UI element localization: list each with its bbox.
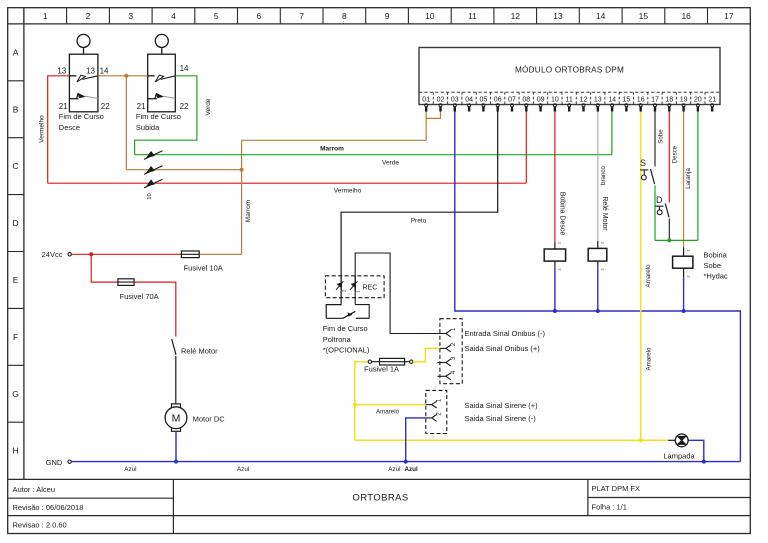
svg-text:22: 22	[101, 102, 110, 111]
svg-text:2: 2	[558, 269, 562, 271]
svg-text:H: H	[13, 446, 19, 456]
svg-text:E: E	[13, 275, 19, 285]
svg-text:3: 3	[128, 11, 133, 21]
row letters A-H	[12, 47, 19, 455]
node blue junction sirene-GND	[404, 460, 408, 464]
wire brown: Marrom branch horizontal	[126, 169, 241, 171]
node blue junction motor-GND	[174, 460, 178, 464]
svg-text:Fim de Curso: Fim de Curso	[136, 112, 181, 121]
svg-text:Fim de Curso: Fim de Curso	[59, 112, 104, 121]
svg-text:03: 03	[451, 96, 459, 103]
wire yellow: bottom run to Lampada	[355, 439, 668, 441]
svg-text:6: 6	[257, 11, 262, 21]
fuse Fusivel 1A	[364, 358, 413, 373]
X1 pin 2	[440, 342, 457, 352]
wire green: S2 pin14 staircase to Verde bus	[135, 76, 197, 155]
S2 label Fim de Curso Subida	[136, 112, 181, 132]
svg-text:S: S	[640, 158, 646, 168]
svg-text:Vermelho: Vermelho	[39, 115, 46, 143]
svg-text:15: 15	[623, 96, 631, 103]
svg-text:Folha : 1/1: Folha : 1/1	[592, 502, 627, 511]
wire brown: horizontal y140 to x426	[242, 139, 427, 141]
svg-text:14: 14	[596, 11, 606, 21]
label Fim de Curso Poltrona *(OPCIONAL)	[323, 324, 370, 354]
svg-text:C: C	[13, 161, 19, 171]
svg-text:*Hydac: *Hydac	[704, 272, 728, 281]
svg-text:ORTOBRAS: ORTOBRAS	[352, 492, 408, 503]
connector X2 dashed box	[426, 390, 447, 433]
lamp Lampada	[668, 434, 690, 447]
svg-text:Amarelo: Amarelo	[645, 347, 652, 371]
svg-text:11: 11	[468, 11, 477, 21]
X1 pin 4	[438, 370, 458, 380]
wire brown: after Fusivel 10A	[190, 253, 242, 255]
fuse Fusivel 10A	[181, 251, 222, 272]
label Bobina Sobe *Hydac	[704, 251, 728, 281]
wire blue: GND horizontal bus	[71, 461, 740, 463]
relay contact Rele Motor	[172, 339, 218, 405]
svg-text:2: 2	[600, 269, 604, 271]
svg-text:Revisão : 06/06/2018: Revisão : 06/06/2018	[13, 503, 84, 512]
svg-text:Amarelo: Amarelo	[376, 409, 400, 416]
REC pin contact right	[350, 276, 360, 293]
svg-text:14: 14	[100, 66, 109, 75]
svg-text:15: 15	[639, 11, 649, 21]
X1 pin 3	[438, 356, 458, 366]
svg-text:Azul: Azul	[388, 466, 400, 473]
node yellow junction sirene	[353, 403, 357, 407]
svg-text:17: 17	[724, 11, 734, 21]
svg-text:branco: branco	[600, 165, 607, 184]
svg-text:08: 08	[522, 96, 530, 103]
svg-text:Verde: Verde	[205, 98, 212, 115]
svg-text:01: 01	[422, 96, 430, 103]
node yellow junction at lamp bus	[639, 438, 643, 442]
wire red: terminal 18 to D button	[668, 112, 670, 203]
wire gray branco: terminal 13 to Rele Motor coil	[597, 112, 599, 241]
pushbutton S	[640, 158, 655, 184]
module terminal pins 01-21	[425, 104, 714, 112]
svg-text:2: 2	[686, 276, 690, 278]
node green junction D	[667, 238, 671, 242]
svg-text:Relé Motor: Relé Motor	[601, 196, 608, 231]
wire brown: drop from junction to Marrom bus	[125, 76, 127, 170]
svg-text:20: 20	[694, 96, 702, 103]
node red junction at 24Vcc	[89, 252, 93, 256]
svg-text:Fusivel 10A: Fusivel 10A	[184, 263, 223, 272]
node 24Vcc terminal	[42, 250, 72, 259]
svg-text:Sobe: Sobe	[657, 129, 664, 144]
svg-text:19: 19	[680, 96, 688, 103]
svg-text:B: B	[13, 104, 19, 114]
wire red: S1 pin13 left drop to Vermelho bus	[48, 76, 70, 183]
wire red: Fusivel 70A to Rele Motor contact	[134, 282, 176, 336]
node blue junction Bobina Desce	[553, 309, 557, 313]
svg-text:21: 21	[59, 102, 68, 111]
wire brown: riser to terminals 01/02	[425, 112, 427, 141]
svg-text:F: F	[13, 332, 18, 342]
svg-text:5: 5	[214, 11, 219, 21]
wire blue: motor to GND bus	[175, 431, 177, 461]
svg-text:1: 1	[600, 242, 604, 244]
wire brown: S1 pin14 to S2 link	[98, 75, 148, 77]
wire green: riser to terminal 14	[611, 112, 613, 155]
coil pin labels Bobina Desce	[558, 242, 562, 271]
wire green: terminal 20 drop	[697, 112, 699, 241]
wire brown: terminal 02 jog	[426, 112, 440, 119]
svg-text:Marrom: Marrom	[320, 145, 344, 152]
wire yellow: terminal 16 drop to lamp bus	[640, 112, 642, 441]
wire black: REC right pin down to poltrona switch	[355, 305, 369, 319]
svg-text:Fim de Curso: Fim de Curso	[323, 324, 368, 333]
svg-text:Autor : Alceu: Autor : Alceu	[13, 485, 56, 494]
X2 pin 2	[426, 412, 443, 422]
svg-text:04: 04	[465, 96, 473, 103]
wire blue: X2 pin2 to GND bus	[406, 418, 426, 462]
wire black: REC right pin jog to connector X1 pin1	[355, 253, 440, 334]
contact mark on Marrom branch	[144, 166, 163, 175]
svg-text:1: 1	[686, 250, 690, 252]
wire blue: Bobina Sobe to blue bus	[683, 277, 685, 311]
coil Bobina Desce	[544, 242, 565, 267]
svg-text:M: M	[172, 413, 181, 425]
coil Bobina Sobe	[673, 247, 693, 277]
wire brown: vertical x241 from Fusivel 10A up to y140	[241, 140, 243, 254]
wire green: S to green link bus	[654, 186, 656, 241]
wire yellow: sirene net vertical	[354, 362, 356, 441]
svg-text:Azul: Azul	[237, 466, 249, 473]
svg-text:REC: REC	[363, 285, 378, 292]
svg-text:05: 05	[480, 96, 488, 103]
node blue junction Rele Motor	[596, 309, 600, 313]
svg-text:Laranja: Laranja	[685, 168, 692, 189]
svg-text:09: 09	[537, 96, 545, 103]
svg-text:D: D	[656, 195, 663, 205]
wire yellow: to connector X2 pin1	[355, 404, 426, 406]
svg-text:MÓDULO ORTOBRAS DPM: MÓDULO ORTOBRAS DPM	[515, 64, 624, 74]
wire blue: Bobina Desce to blue bus	[554, 267, 556, 311]
wire black: terminal 17 to S button	[654, 112, 656, 167]
module MÓDULO ORTOBRAS DPM	[419, 48, 720, 105]
svg-text:2: 2	[86, 11, 91, 21]
contact mark on Verde bus	[144, 151, 163, 160]
coil pin labels Rele Motor	[600, 242, 604, 271]
svg-text:Saida Sinal Sirene (-): Saida Sinal Sirene (-)	[465, 414, 537, 423]
connector X1 dashed box	[440, 319, 462, 384]
svg-text:16: 16	[681, 11, 691, 21]
svg-text:A: A	[13, 47, 19, 57]
svg-text:*(OPCIONAL): *(OPCIONAL)	[323, 346, 370, 355]
wire yellow: Fusivel 1A to connector X1 pin2	[413, 348, 440, 361]
switch Fim de Curso Poltrona	[326, 311, 369, 318]
pushbutton D	[655, 195, 669, 218]
wire blue: lamp to GND bus	[690, 440, 704, 461]
svg-text:18: 18	[665, 96, 673, 103]
svg-text:4: 4	[171, 11, 176, 21]
limit switch S1 Fim de Curso Desce	[69, 34, 98, 111]
node GND terminal	[46, 458, 72, 467]
svg-text:07: 07	[508, 96, 516, 103]
wire red: terminal 10 to Bobina Desce	[554, 112, 556, 242]
svg-text:12: 12	[511, 11, 521, 21]
contact mark on Vermelho bus	[144, 179, 163, 188]
svg-text:14: 14	[608, 96, 616, 103]
svg-text:Saida Sinal Onibus (+): Saida Sinal Onibus (+)	[465, 344, 541, 353]
wire black: terminal 06 Preto run to REC and poltrona switch	[326, 112, 498, 319]
motor M1 Motor DC	[165, 404, 225, 431]
column header ticks	[24, 8, 708, 24]
svg-text:14: 14	[180, 64, 189, 73]
svg-text:13: 13	[57, 66, 66, 75]
wire red: branch down to Fusivel 70A	[91, 254, 118, 282]
svg-text:21: 21	[137, 102, 146, 111]
svg-text:Amarelo: Amarelo	[645, 264, 652, 288]
title block	[8, 479, 751, 533]
svg-text:12: 12	[580, 96, 588, 103]
X1 pin 1	[440, 327, 457, 337]
svg-text:7: 7	[299, 11, 304, 21]
svg-text:Verde: Verde	[382, 159, 399, 166]
svg-text:Saida Sinal Sirene (+): Saida Sinal Sirene (+)	[465, 401, 539, 410]
svg-text:Desce: Desce	[59, 123, 80, 132]
wire orange: terminal 19 to Bobina Sobe	[683, 112, 685, 248]
column numbers 1-17	[43, 11, 734, 21]
svg-text:Poltrona: Poltrona	[323, 335, 352, 344]
svg-text:11: 11	[566, 96, 573, 103]
svg-text:16: 16	[637, 96, 645, 103]
wire blue: Rele Motor coil to blue bus	[597, 267, 599, 311]
S1 label Fim de Curso Desce	[59, 112, 104, 132]
node blue junction Bobina Sobe	[682, 309, 686, 313]
svg-text:21: 21	[708, 96, 716, 103]
module terminal cells 01-21	[433, 92, 705, 104]
svg-text:Revisao : 2 0.60: Revisao : 2 0.60	[13, 520, 67, 529]
svg-text:22: 22	[180, 102, 189, 111]
svg-text:Motor DC: Motor DC	[193, 415, 226, 424]
svg-text:Fusivel 1A: Fusivel 1A	[364, 364, 399, 373]
node blue junction lamp-GND	[702, 460, 706, 464]
svg-text:8: 8	[342, 11, 347, 21]
svg-text:10: 10	[147, 193, 153, 199]
svg-text:9: 9	[385, 11, 390, 21]
coil Rele Motor	[588, 241, 607, 267]
svg-text:Desce: Desce	[671, 145, 678, 163]
svg-text:1: 1	[43, 11, 48, 21]
fuse Fusivel 70A	[118, 279, 159, 301]
wire yellow: to Fusivel 1A	[355, 361, 368, 363]
svg-text:D: D	[13, 218, 19, 228]
svg-text:06: 06	[494, 96, 502, 103]
wire green: Verde horizontal bus	[135, 154, 612, 156]
row ticks	[8, 81, 24, 422]
svg-text:PLAT DPM FX: PLAT DPM FX	[592, 484, 640, 493]
svg-text:GND: GND	[46, 458, 63, 467]
svg-text:Subida: Subida	[136, 123, 160, 132]
module terminal numbers	[422, 96, 716, 103]
svg-text:13: 13	[553, 11, 563, 21]
node brown junction at x241	[240, 168, 244, 172]
node brown junction at x126	[124, 74, 128, 78]
svg-text:10: 10	[551, 96, 559, 103]
wire red: 24Vcc feed	[71, 253, 190, 255]
REC pin contact left	[336, 276, 346, 292]
svg-text:Vermelho: Vermelho	[334, 187, 362, 194]
svg-text:Relé Motor: Relé Motor	[181, 346, 218, 355]
svg-text:Azul: Azul	[124, 466, 136, 473]
wire red: Vermelho horizontal bus	[48, 182, 527, 184]
svg-text:13: 13	[86, 66, 95, 75]
svg-text:Preto: Preto	[411, 218, 427, 225]
svg-text:13: 13	[594, 96, 602, 103]
REC dashed box	[325, 276, 384, 298]
X2 pin 1	[426, 398, 443, 408]
svg-text:Sobe: Sobe	[704, 261, 722, 270]
wire green: S/D link bus	[655, 239, 698, 241]
svg-text:17: 17	[651, 96, 659, 103]
svg-text:24Vcc: 24Vcc	[42, 250, 63, 259]
svg-text:G: G	[12, 389, 19, 399]
svg-text:Bobina: Bobina	[704, 251, 728, 260]
wire black: D to green link bus	[668, 219, 670, 241]
svg-text:Marrom: Marrom	[245, 200, 252, 222]
svg-text:02: 02	[437, 96, 445, 103]
coil pin labels Bobina Sobe	[686, 250, 690, 278]
svg-text:1: 1	[558, 242, 562, 244]
limit switch S2 Fim de Curso Subida	[148, 34, 176, 111]
wire red: riser to terminal 08	[525, 112, 527, 184]
svg-text:Bobina Desce: Bobina Desce	[558, 192, 565, 236]
svg-text:Lampada: Lampada	[663, 452, 695, 461]
wire blue: terminal 03 drop	[455, 112, 741, 462]
svg-text:10: 10	[425, 11, 435, 21]
svg-text:Entrada Sinal Onibus (-): Entrada Sinal Onibus (-)	[465, 329, 546, 338]
svg-text:Azul: Azul	[404, 466, 418, 473]
svg-text:Fusivel 70A: Fusivel 70A	[120, 292, 159, 301]
